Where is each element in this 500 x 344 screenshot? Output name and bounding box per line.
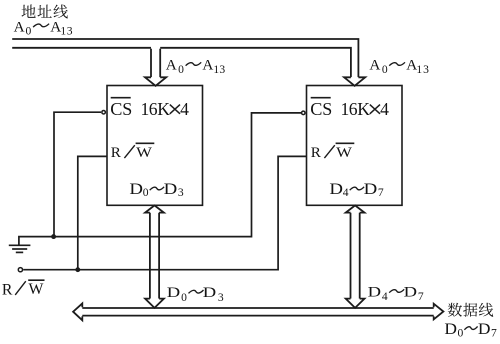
svg-text:D: D xyxy=(444,321,457,338)
svg-text:S: S xyxy=(122,99,132,119)
svg-text:3: 3 xyxy=(423,63,429,76)
svg-text:D: D xyxy=(129,181,143,198)
svg-text:0: 0 xyxy=(458,327,464,340)
svg-text:3: 3 xyxy=(178,186,184,199)
svg-text:W: W xyxy=(336,144,353,161)
svg-text:7: 7 xyxy=(378,186,384,199)
svg-text:3: 3 xyxy=(219,63,225,76)
svg-text:D: D xyxy=(164,181,178,198)
svg-text:4: 4 xyxy=(343,186,349,199)
svg-text:R: R xyxy=(311,144,322,161)
svg-text:D: D xyxy=(364,181,378,198)
svg-text:D: D xyxy=(203,284,216,301)
svg-text:0: 0 xyxy=(181,291,187,304)
svg-text:0: 0 xyxy=(382,63,388,76)
svg-text:W: W xyxy=(29,281,44,298)
svg-text:A: A xyxy=(202,56,213,73)
svg-text:K: K xyxy=(157,99,170,119)
svg-text:1: 1 xyxy=(416,63,422,76)
svg-text:7: 7 xyxy=(491,327,497,340)
svg-text:1: 1 xyxy=(60,24,66,37)
svg-text:C: C xyxy=(310,99,322,119)
svg-text:3: 3 xyxy=(218,291,224,304)
svg-text:0: 0 xyxy=(26,24,32,37)
svg-text:D: D xyxy=(478,321,491,338)
svg-text:A: A xyxy=(14,18,25,35)
svg-text:A: A xyxy=(166,56,177,73)
svg-text:W: W xyxy=(136,144,153,161)
svg-text:0: 0 xyxy=(178,63,184,76)
svg-text:4: 4 xyxy=(180,99,189,119)
svg-text:S: S xyxy=(322,99,332,119)
svg-text:R: R xyxy=(2,281,13,298)
svg-text:D: D xyxy=(404,284,417,301)
svg-text:4: 4 xyxy=(382,290,388,303)
svg-text:D: D xyxy=(329,181,343,198)
svg-text:K: K xyxy=(357,99,370,119)
svg-text:0: 0 xyxy=(143,186,149,199)
svg-text:C: C xyxy=(110,99,122,119)
svg-text:D: D xyxy=(368,284,381,301)
svg-text:3: 3 xyxy=(67,24,73,37)
svg-text:D: D xyxy=(167,284,180,301)
svg-text:R: R xyxy=(111,144,122,161)
svg-text:7: 7 xyxy=(418,290,424,303)
svg-text:4: 4 xyxy=(380,99,389,119)
svg-text:A: A xyxy=(369,56,380,73)
